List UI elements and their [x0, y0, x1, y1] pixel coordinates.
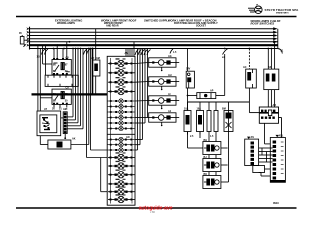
svg-text:STEYR TRACTOR SPA: STEYR TRACTOR SPA: [265, 8, 300, 12]
svg-text:ADL: ADL: [279, 134, 284, 137]
svg-text:autoguide-ave: autoguide-ave: [139, 206, 173, 212]
svg-text:SWITCHED SUPPLY: SWITCHED SUPPLY: [144, 19, 170, 23]
svg-text:AS: AS: [251, 136, 255, 139]
svg-text:AO: AO: [126, 136, 130, 139]
svg-text:AK: AK: [72, 138, 76, 141]
svg-text:IN13: IN13: [273, 201, 279, 205]
svg-text:AF: AF: [91, 57, 95, 60]
svg-text:24V: 24V: [186, 68, 191, 71]
svg-text:WORKLAMPS: WORKLAMPS: [57, 21, 75, 25]
svg-text:J 80: J 80: [150, 210, 155, 214]
svg-text:AP: AP: [210, 90, 214, 93]
svg-text:AH: AH: [168, 74, 172, 77]
svg-text:SPARE PARTS: SPARE PARTS: [276, 11, 289, 14]
svg-text:10A: 10A: [197, 108, 202, 111]
svg-text:AB: AB: [273, 104, 277, 107]
svg-text:BM: BM: [222, 108, 226, 111]
svg-text:BH: BH: [204, 139, 208, 142]
svg-text:AND REAR: AND REAR: [106, 24, 119, 27]
svg-text:BK: BK: [204, 173, 208, 176]
svg-text:SOCKET: SOCKET: [196, 24, 207, 27]
svg-text:AG: AG: [168, 55, 172, 58]
svg-text:AD: AD: [268, 66, 272, 69]
svg-text:AM: AM: [96, 57, 100, 60]
svg-text:AN: AN: [125, 52, 129, 55]
svg-text:10A: 10A: [184, 108, 189, 111]
svg-text:AI: AI: [168, 93, 171, 96]
svg-text:AC: AC: [243, 66, 247, 69]
svg-text:ROOF SWITCHES: ROOF SWITCHES: [251, 22, 275, 26]
svg-text:AE: AE: [63, 108, 67, 111]
